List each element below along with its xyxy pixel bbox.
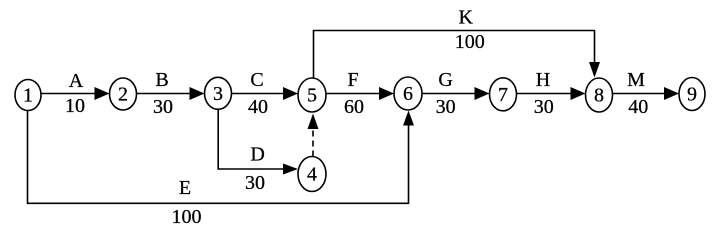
svg-text:4: 4 [307,164,317,186]
svg-text:30: 30 [534,96,554,118]
arrowhead into node 4 (D) [283,164,298,175]
svg-text:H: H [536,69,550,91]
node 1 [15,80,41,111]
node 9 [679,78,705,111]
arrowhead into node 8 top (K) [589,62,600,78]
node 6 [394,77,422,110]
node 4 [298,157,326,192]
dashed wire from node 4 to node 5 [312,129,314,157]
svg-text:2: 2 [118,84,128,106]
svg-text:60: 60 [344,96,364,118]
svg-text:10: 10 [65,95,85,117]
svg-text:30: 30 [245,172,265,194]
wire K riser from node 5 top [314,31,595,79]
svg-text:F: F [347,69,358,91]
svg-text:K: K [458,7,473,29]
node 7 [490,78,517,111]
svg-text:3: 3 [213,83,223,105]
svg-text:E: E [179,177,191,199]
svg-text:D: D [250,144,264,166]
svg-text:G: G [438,69,452,91]
wire D from node 3 bottom to node 4 [218,109,284,169]
svg-text:6: 6 [403,83,413,105]
svg-text:100: 100 [172,206,202,228]
svg-text:9: 9 [687,84,697,106]
svg-text:C: C [250,69,263,91]
node 5 [298,78,326,112]
arrow H (7-8) [517,93,572,95]
node 3 [205,77,232,109]
arrow B (2-3) [137,93,191,95]
arrow G (6-7) [422,93,475,95]
arrow M (8-9) [613,93,666,95]
node 8 [586,78,613,112]
svg-text:A: A [69,70,84,92]
arrowhead into node 6 bottom (E) [403,111,414,126]
svg-text:30: 30 [153,96,173,118]
svg-text:B: B [155,69,168,91]
svg-text:40: 40 [628,96,648,118]
arrow A (1-2) [41,93,95,95]
arrow C (3-5) [232,93,285,95]
svg-text:M: M [627,69,645,91]
svg-text:100: 100 [455,31,485,53]
svg-text:5: 5 [307,85,317,107]
svg-text:30: 30 [436,96,456,118]
arrow F (5-6) [326,93,380,95]
arrowhead into node 5 bottom (dashed link) [308,114,319,130]
node 2 [110,78,137,110]
svg-text:40: 40 [248,96,268,118]
wire E from node 1 bottom to node 6 bottom [28,110,409,203]
svg-text:1: 1 [23,85,33,107]
svg-text:8: 8 [594,85,604,107]
svg-text:7: 7 [498,84,508,106]
